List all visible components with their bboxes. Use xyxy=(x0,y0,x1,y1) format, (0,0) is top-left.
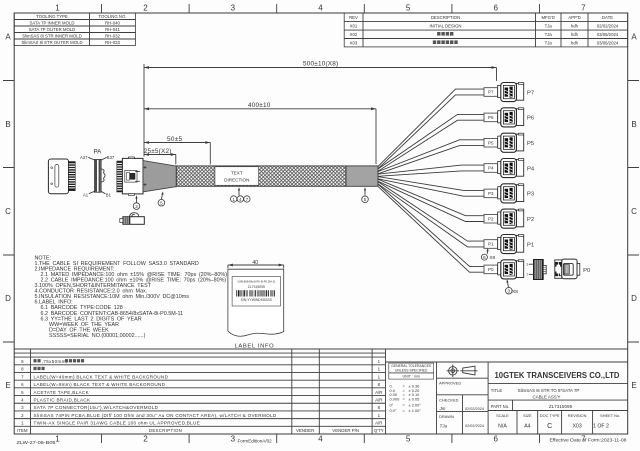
svg-text:25±5(X2): 25±5(X2) xyxy=(144,148,172,155)
general tolerances box xyxy=(389,363,434,373)
svg-text:SlimSAS 8i STR INNER MOLD: SlimSAS 8i STR INNER MOLD xyxy=(22,33,81,38)
dim 500±10(X8) xyxy=(144,68,497,82)
svg-text:ZL7315095: ZL7315095 xyxy=(248,285,265,289)
label box P6 xyxy=(484,113,498,122)
callout 1 4 7 cable braid label xyxy=(238,189,240,195)
svg-text:S/N:YYWWDSSSSS: S/N:YYWWDSSSSS xyxy=(241,298,273,302)
svg-text:ACETATE TAPE,BLACK: ACETATE TAPE,BLACK xyxy=(34,390,90,395)
svg-text:B: B xyxy=(5,120,10,129)
third angle projection symbol xyxy=(447,365,478,378)
svg-text:P6: P6 xyxy=(488,115,494,120)
SATA CONNECTORS xyxy=(484,83,590,280)
svg-text:SCALE: SCALE xyxy=(496,413,509,418)
barcode xyxy=(236,290,275,296)
svg-text:5: 5 xyxy=(364,197,367,202)
SATA connector P6 xyxy=(498,108,524,127)
svg-text:1: 1 xyxy=(55,435,60,444)
REVISION TABLE xyxy=(344,13,628,47)
svg-text:P7: P7 xyxy=(527,90,534,96)
SlimSAS connector top view body xyxy=(48,159,68,194)
TITLE BLOCK xyxy=(386,362,628,434)
SATA connector P1 xyxy=(498,235,524,254)
callout 3 X8 SATA connectors xyxy=(507,281,508,288)
svg-text:2: 2 xyxy=(143,435,148,444)
svg-text:hdh: hdh xyxy=(571,40,579,45)
svg-text:A/R: A/R xyxy=(375,421,382,426)
svg-text:X01: X01 xyxy=(350,24,358,29)
label box P2 xyxy=(484,214,498,223)
svg-text:LABEL(W=40mm) BLACK TEXT & WHI: LABEL(W=40mm) BLACK TEXT & WHITE BACKGRO… xyxy=(34,374,169,379)
SlimSAS side view pin stripes xyxy=(117,161,123,192)
svg-text:3: 3 xyxy=(231,435,236,444)
PA front view side latch bump xyxy=(101,169,105,182)
label box P1 xyxy=(484,240,498,249)
P0 overmold rear view xyxy=(555,259,590,279)
svg-text:C: C xyxy=(5,207,11,216)
svg-text:400±10: 400±10 xyxy=(248,102,271,109)
svg-text:FormEditionA/02: FormEditionA/02 xyxy=(238,439,273,444)
top view screw holes xyxy=(51,167,53,169)
SATA connector P0 xyxy=(498,260,524,279)
NOTES xyxy=(35,255,228,339)
svg-text:REVISION: REVISION xyxy=(568,413,587,418)
svg-text:Jin: Jin xyxy=(439,406,446,411)
svg-text:7: 7 xyxy=(526,273,528,277)
svg-text:7: 7 xyxy=(581,4,586,13)
SATA connector P5 xyxy=(498,133,524,152)
svg-text:DESCRIPTION: DESCRIPTION xyxy=(149,428,182,433)
svg-text:2: 2 xyxy=(143,4,148,13)
svg-text:± 1.00°: ± 1.00° xyxy=(409,408,422,413)
svg-text:ZL7315095: ZL7315095 xyxy=(549,404,573,409)
svg-text:hdh: hdh xyxy=(571,24,579,29)
side view latch mechanism xyxy=(125,170,137,182)
X03 chinese description blob (6 chars) xyxy=(433,40,458,44)
common left extension line xyxy=(143,64,145,157)
SATA connector P7 xyxy=(498,83,524,102)
dim 400±10 xyxy=(144,109,376,164)
svg-text:P1: P1 xyxy=(527,242,534,248)
svg-text:A1: A1 xyxy=(83,192,89,197)
svg-text:B1: B1 xyxy=(106,192,112,197)
svg-text:X8: X8 xyxy=(512,289,518,295)
svg-text:TJa: TJa xyxy=(545,32,553,37)
svg-text:C: C xyxy=(547,423,552,430)
overmold gate marks xyxy=(144,166,147,186)
wire pair to P0 xyxy=(378,184,484,272)
svg-text:D: D xyxy=(631,294,637,303)
svg-text:INITIAL DESIGN: INITIAL DESIGN xyxy=(429,24,461,29)
svg-text:UNLESS SPECIFIED: UNLESS SPECIFIED xyxy=(395,368,428,372)
svg-text:APP'D: APP'D xyxy=(568,15,581,20)
svg-text:DESCRIPTION: DESCRIPTION xyxy=(431,15,460,20)
label box P0 xyxy=(484,265,498,274)
svg-text:VENDER: VENDER xyxy=(296,428,314,433)
svg-text:,75x50mm,: ,75x50mm, xyxy=(42,359,68,364)
svg-text:RH-040: RH-040 xyxy=(105,20,120,25)
SATA connector P2 xyxy=(498,209,524,228)
dim 40 xyxy=(228,265,284,268)
svg-text:3: 3 xyxy=(508,289,511,294)
svg-text:LABEL(W=8mm) BLACK TEXT & WHIT: LABEL(W=8mm) BLACK TEXT & WHITE BACKGROU… xyxy=(34,382,166,387)
svg-text:P7: P7 xyxy=(488,90,494,95)
svg-text:03/06/2024: 03/06/2024 xyxy=(597,40,619,45)
svg-text:P0: P0 xyxy=(583,268,590,274)
svg-text:4: 4 xyxy=(318,435,323,444)
sticker area xyxy=(232,277,280,307)
svg-text:P2: P2 xyxy=(527,217,534,223)
svg-text:0.0°: 0.0° xyxy=(390,408,397,413)
svg-text:A: A xyxy=(5,33,11,42)
svg-text:TOOLING NO.: TOOLING NO. xyxy=(98,14,126,19)
svg-text:SlimSAS 8i STR TO 8*SATA 7P: SlimSAS 8i STR TO 8*SATA 7P xyxy=(518,388,580,393)
wire pair to P1 xyxy=(378,182,484,247)
svg-text:TITLE: TITLE xyxy=(491,388,503,393)
svg-text:P4: P4 xyxy=(527,166,535,172)
svg-text:RH-032: RH-032 xyxy=(105,33,120,38)
svg-text:02/02/2024: 02/02/2024 xyxy=(465,424,484,428)
svg-text:ZLW-27-06-B05: ZLW-27-06-B05 xyxy=(17,440,56,446)
svg-text:1: 1 xyxy=(232,197,235,202)
svg-text:A4: A4 xyxy=(524,423,530,429)
svg-text:MFG'D: MFG'D xyxy=(541,15,554,20)
svg-text:6: 6 xyxy=(483,255,486,260)
svg-text:DOC TYPE: DOC TYPE xyxy=(540,413,560,418)
label box P3 xyxy=(484,189,498,198)
svg-text:VENDER P/N: VENDER P/N xyxy=(332,428,359,433)
svg-text:SATA 7P OUTER MOLD: SATA 7P OUTER MOLD xyxy=(29,27,76,32)
label box P5 xyxy=(484,138,498,147)
svg-text:SIZE: SIZE xyxy=(523,413,532,418)
svg-text:SHEET No.: SHEET No. xyxy=(600,413,620,418)
svg-text:P6: P6 xyxy=(527,116,534,122)
svg-text:B37: B37 xyxy=(107,155,115,160)
label outline with torn bottom xyxy=(228,269,284,336)
svg-text:SATA 7P CONNECTOR(15u"),W/LATC: SATA 7P CONNECTOR(15u"),W/LATCH&OVERMOLD xyxy=(34,405,159,410)
svg-text:A37: A37 xyxy=(80,155,88,160)
svg-text:DATE: DATE xyxy=(602,15,613,20)
svg-text:TWIN-AX SINGLE PAIR 31AWG CABL: TWIN-AX SINGLE PAIR 31AWG CABLE 100 ohm … xyxy=(34,421,201,426)
svg-text:TEXT: TEXT xyxy=(231,171,243,176)
svg-text:SlimSAS 74PIN PCBA,BLUE (DIff: SlimSAS 74PIN PCBA,BLUE (DIff 100 Ohm an… xyxy=(34,413,277,418)
acetate tape wrap block xyxy=(346,166,378,186)
LEFT CONNECTOR VIEWS xyxy=(48,149,176,225)
SATA connector P4 xyxy=(498,159,524,178)
svg-text:P1: P1 xyxy=(488,242,494,247)
svg-text:03/05/2024: 03/05/2024 xyxy=(597,32,619,37)
svg-text:P2: P2 xyxy=(488,216,494,221)
BOM table grid xyxy=(14,349,628,426)
svg-text:P4: P4 xyxy=(488,166,494,171)
svg-text:hdh: hdh xyxy=(571,32,579,37)
svg-text:P3: P3 xyxy=(488,191,494,196)
LABEL DRAWING xyxy=(228,260,284,349)
top view latch slot xyxy=(55,165,59,188)
svg-text:Q'TY: Q'TY xyxy=(374,428,384,433)
svg-text:PA: PA xyxy=(94,149,103,156)
svg-text:1 OF 2: 1 OF 2 xyxy=(593,423,609,429)
BOM row 9 chinese desc xyxy=(34,359,41,362)
svg-text:N/A: N/A xyxy=(498,423,507,429)
svg-text:D: D xyxy=(5,294,11,303)
svg-text:P3: P3 xyxy=(527,192,534,198)
svg-text:5: 5 xyxy=(406,4,411,13)
svg-text:P5: P5 xyxy=(527,141,534,147)
svg-text:50±5: 50±5 xyxy=(167,136,183,143)
zone numbers bottom xyxy=(55,435,586,444)
svg-text:E: E xyxy=(631,381,636,390)
svg-text:ITEM: ITEM xyxy=(17,428,28,433)
wire pair to P2 xyxy=(378,179,484,221)
svg-text:CABLE ASS'Y: CABLE ASS'Y xyxy=(533,394,561,399)
svg-text:4: 4 xyxy=(318,4,323,13)
svg-text:SATA 7P INNER MOLD: SATA 7P INNER MOLD xyxy=(30,20,75,25)
wire pair to P6 xyxy=(378,114,484,171)
svg-text:10GTEK TRANSCEIVERS CO.,LTD: 10GTEK TRANSCEIVERS CO.,LTD xyxy=(495,371,620,380)
svg-text:A/R: A/R xyxy=(375,390,382,395)
text direction box on cable xyxy=(215,167,259,186)
svg-text:Effective Date of Form:2023-11: Effective Date of Form:2023-11-08 xyxy=(550,437,627,443)
svg-text:2: 2 xyxy=(135,204,138,209)
dim 50±5 xyxy=(144,143,210,165)
svg-text:PLASTIC BRAID,BLACK: PLASTIC BRAID,BLACK xyxy=(34,397,91,402)
svg-text:PART No.: PART No. xyxy=(491,404,509,409)
svg-text:DRAWN: DRAWN xyxy=(439,414,454,419)
svg-text:RH-033: RH-033 xyxy=(105,40,120,45)
svg-text:6: 6 xyxy=(493,435,498,444)
SATA connector P3 xyxy=(498,184,524,203)
svg-text:E: E xyxy=(5,381,10,390)
svg-text:UNIT : mm: UNIT : mm xyxy=(403,375,420,379)
svg-text:1: 1 xyxy=(526,263,528,267)
svg-text:0.000: 0.000 xyxy=(390,396,401,401)
svg-text:A/R: A/R xyxy=(375,397,382,402)
svg-text:TJa: TJa xyxy=(545,24,553,29)
svg-text:CHECKED: CHECKED xyxy=(439,397,459,402)
svg-text:7: 7 xyxy=(246,197,249,202)
svg-text:SlimSAS 8i STR OUTER MOLD: SlimSAS 8i STR OUTER MOLD xyxy=(21,40,82,45)
callout 2 SlimSAS connector xyxy=(136,197,138,203)
svg-text:5: 5 xyxy=(406,435,411,444)
svg-text:± 0.05: ± 0.05 xyxy=(409,396,420,401)
small latch bottom view xyxy=(120,213,145,225)
DIMENSIONS xyxy=(144,61,497,165)
CABLE xyxy=(176,166,378,186)
svg-text:P0: P0 xyxy=(488,267,494,272)
P0 side view with pins xyxy=(526,260,546,280)
zone letters left xyxy=(5,33,11,391)
wire pair to P7 xyxy=(378,89,484,169)
svg-text:P5: P5 xyxy=(488,140,494,145)
svg-text:A: A xyxy=(631,33,637,42)
title block grid xyxy=(386,362,628,434)
X02 chinese description blob (4 chars) xyxy=(437,32,453,36)
svg-text:CAB-8654/8xSATA-8i-P0.5M-11: CAB-8654/8xSATA-8i-P0.5M-11 xyxy=(237,280,275,284)
braided cable with mesh xyxy=(176,166,346,186)
dim 25±5(X2) xyxy=(144,155,176,165)
svg-text:DIRECTION: DIRECTION xyxy=(224,178,249,183)
svg-text:500±10(X8): 500±10(X8) xyxy=(303,61,338,68)
svg-text:SSSSS=SERIAL NO.(00001,00002..: SSSSS=SERIAL NO.(00001,00002......) xyxy=(49,333,146,339)
svg-text:REV: REV xyxy=(349,15,358,20)
svg-text:X03: X03 xyxy=(572,423,581,429)
label box P4 xyxy=(484,164,498,173)
svg-text:3: 3 xyxy=(231,4,236,13)
FANOUT WIRES xyxy=(378,89,484,272)
svg-text:TOOLING TYPE: TOOLING TYPE xyxy=(36,14,68,19)
zone numbers top xyxy=(55,4,586,13)
svg-text:APPROVED: APPROVED xyxy=(439,381,461,386)
right zone ticks xyxy=(628,81,639,343)
callout 5 acetate tape at fanout xyxy=(364,189,366,196)
PA front view paddle card xyxy=(95,159,102,192)
svg-text:1: 1 xyxy=(55,4,60,13)
wire pair to P4 xyxy=(378,165,484,176)
svg-text:B: B xyxy=(631,120,636,129)
SlimSAS side view body xyxy=(122,158,143,194)
BOM TABLE xyxy=(14,349,628,434)
TOOLING TABLE xyxy=(14,13,135,46)
CALLOUTS xyxy=(133,187,518,295)
svg-text:40: 40 xyxy=(252,260,258,266)
wire pair to P3 xyxy=(378,177,484,197)
zone letters right xyxy=(631,33,637,391)
svg-text:5: 5 xyxy=(160,201,163,206)
svg-text:LABEL INFO: LABEL INFO xyxy=(235,343,275,349)
wire pair to P5 xyxy=(378,140,484,174)
label box P7 xyxy=(484,88,498,97)
svg-text:X02: X02 xyxy=(350,32,358,37)
svg-text:X03: X03 xyxy=(350,40,358,45)
svg-text:TJa: TJa xyxy=(440,423,448,428)
left zone ticks xyxy=(3,81,14,343)
callout 5 acetate tape at boot xyxy=(161,193,162,199)
svg-text:TJa: TJa xyxy=(545,40,553,45)
svg-text:X8: X8 xyxy=(489,255,495,261)
callout 6 X8 small labels xyxy=(486,250,488,254)
svg-text:02/02/2024: 02/02/2024 xyxy=(465,407,484,411)
svg-text:6: 6 xyxy=(493,4,498,13)
svg-text:4: 4 xyxy=(239,197,242,202)
svg-text:02/02/2024: 02/02/2024 xyxy=(597,24,619,29)
top zone ticks xyxy=(102,4,540,13)
svg-text:C: C xyxy=(631,207,637,216)
svg-text:RH-041: RH-041 xyxy=(105,27,120,32)
overmold boot xyxy=(143,161,176,192)
BOM row 8 chinese desc xyxy=(34,367,45,370)
top view pin stripes xyxy=(69,162,76,191)
bottom zone ticks xyxy=(102,434,540,443)
